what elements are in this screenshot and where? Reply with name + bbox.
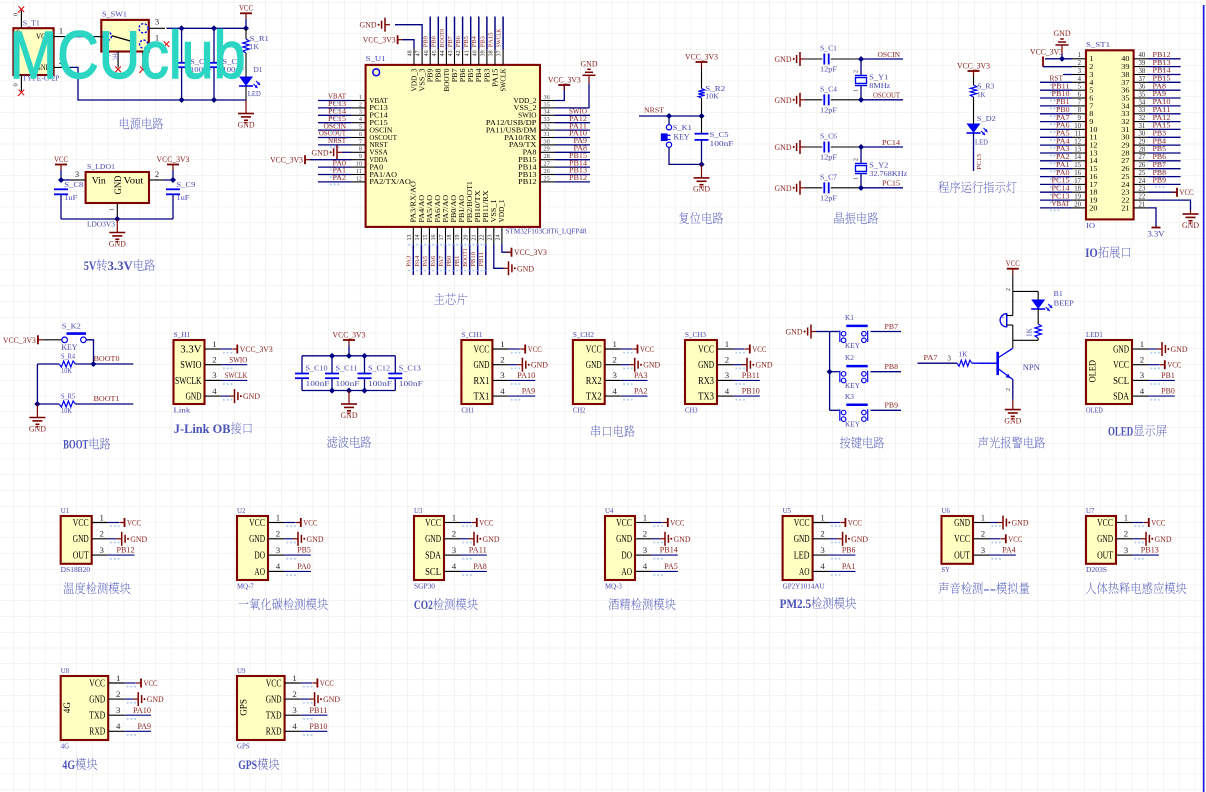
capacitor S_C4 xyxy=(824,94,828,105)
svg-text:4G: 4G xyxy=(61,742,69,750)
caption 5V转3.3V电路 xyxy=(84,258,155,273)
svg-text:S_R5: S_R5 xyxy=(61,394,75,401)
svg-text:3: 3 xyxy=(1124,545,1129,555)
power port VCC xyxy=(136,679,158,689)
svg-text:3: 3 xyxy=(1140,370,1145,380)
wire xyxy=(1040,113,1072,115)
wire xyxy=(1148,89,1181,91)
svg-text:34: 34 xyxy=(544,109,550,116)
svg-text:GND: GND xyxy=(186,392,202,403)
pin 15 PA5/AO xyxy=(423,195,434,244)
net label PA10 xyxy=(133,706,151,715)
designator S_R2 xyxy=(705,85,726,93)
pin 2 GND xyxy=(1097,529,1144,546)
part name TYPE-C-2P xyxy=(22,74,59,82)
wire xyxy=(494,17,496,50)
wire xyxy=(469,244,471,275)
wire xyxy=(733,379,760,381)
value 10K xyxy=(61,368,72,375)
caption CO2检测模块 xyxy=(414,597,478,612)
pushbutton S_K1 xyxy=(661,125,672,148)
junction xyxy=(346,353,352,359)
wire xyxy=(302,390,395,392)
svg-text:VDD_3: VDD_3 xyxy=(411,68,418,92)
svg-text:GND: GND xyxy=(323,695,340,704)
junction xyxy=(90,361,96,367)
part name GP2Y1014AU xyxy=(783,582,826,590)
net label PA11 xyxy=(469,546,487,555)
svg-text:S_CH1: S_CH1 xyxy=(461,331,482,339)
wire xyxy=(318,174,351,176)
svg-text:PC15: PC15 xyxy=(882,179,900,188)
caption 串口电路 xyxy=(591,425,634,437)
svg-text:KEY: KEY xyxy=(845,341,860,350)
svg-text:PB11: PB11 xyxy=(309,706,327,715)
pin 2 GND xyxy=(266,689,313,706)
wire xyxy=(733,364,742,366)
pin 23 VSS_1 xyxy=(487,200,498,245)
svg-text:LED1: LED1 xyxy=(1086,331,1103,339)
svg-text:1: 1 xyxy=(854,177,860,180)
designator CH3 xyxy=(685,331,706,339)
svg-text:BEEP: BEEP xyxy=(1054,299,1074,307)
svg-text:20: 20 xyxy=(463,235,469,241)
wire xyxy=(918,362,958,364)
connector U4 MQ-3 xyxy=(605,516,635,580)
wire xyxy=(172,194,174,219)
wire xyxy=(124,698,133,700)
pin 45 PB8 xyxy=(432,49,443,82)
designator S_LDO1 xyxy=(87,163,115,171)
ground xyxy=(581,59,598,83)
part name KEY xyxy=(845,420,860,429)
part name NPN xyxy=(1023,363,1040,372)
power port VCC xyxy=(663,518,685,528)
svg-text:2: 2 xyxy=(500,355,504,365)
net label PB13 xyxy=(1153,59,1171,70)
svg-text:41: 41 xyxy=(464,50,470,56)
junction xyxy=(170,177,176,183)
junction xyxy=(858,56,864,62)
capacitor S_C5 xyxy=(695,134,709,140)
wire xyxy=(829,570,856,572)
wire xyxy=(213,28,215,62)
ground xyxy=(630,358,661,372)
designator U4 xyxy=(605,507,614,515)
svg-text:PM2.5: PM2.5 xyxy=(780,596,812,611)
wire xyxy=(860,174,862,188)
wire xyxy=(245,86,247,100)
svg-text:32: 32 xyxy=(544,124,550,131)
svg-text:RX1: RX1 xyxy=(474,376,490,387)
svg-text:PB7: PB7 xyxy=(447,36,454,47)
svg-text:PB10: PB10 xyxy=(742,387,760,396)
net label PA5 xyxy=(1050,130,1070,141)
wire xyxy=(816,331,830,333)
resistor S_R5 xyxy=(59,401,76,407)
wire xyxy=(108,554,135,556)
svg-text:1: 1 xyxy=(981,512,985,522)
svg-text:1: 1 xyxy=(820,512,824,522)
wire xyxy=(508,379,535,381)
svg-text:1uF: 1uF xyxy=(176,194,189,202)
ground xyxy=(230,389,261,403)
designator D1 xyxy=(254,66,263,74)
net label PB11 xyxy=(478,252,485,267)
svg-text:VSSA: VSSA xyxy=(369,150,387,157)
wire xyxy=(1012,325,1014,340)
svg-text:VSS_1: VSS_1 xyxy=(491,200,498,223)
ground xyxy=(517,358,548,372)
svg-text:VCC_3V3: VCC_3V3 xyxy=(157,155,190,164)
net label PA9 xyxy=(138,722,152,731)
part name SY xyxy=(942,566,951,574)
svg-text:S_C6: S_C6 xyxy=(820,133,837,141)
svg-text:PB0: PB0 xyxy=(446,256,453,267)
pin 34 SWIO xyxy=(518,109,555,120)
pin 4 AO xyxy=(254,561,295,578)
wire xyxy=(76,363,134,365)
pin 2 xyxy=(1072,60,1094,71)
wire xyxy=(1148,152,1181,154)
svg-text:S_U1: S_U1 xyxy=(366,55,386,63)
svg-text:S_K1: S_K1 xyxy=(673,124,692,132)
svg-text:GND: GND xyxy=(474,360,490,371)
net label PA8 xyxy=(473,562,487,571)
svg-text:2: 2 xyxy=(116,689,120,699)
svg-text:PB3: PB3 xyxy=(484,68,491,83)
svg-text:SWIO: SWIO xyxy=(518,113,536,120)
svg-text:BOOT: BOOT xyxy=(63,437,88,452)
svg-text:VCC: VCC xyxy=(479,519,494,528)
net label VBAT xyxy=(1050,200,1070,211)
svg-text:PC15: PC15 xyxy=(369,120,388,127)
svg-text:VCC: VCC xyxy=(1008,535,1023,544)
designator S_C2 xyxy=(190,58,209,66)
wire xyxy=(454,17,456,50)
designator K2 xyxy=(845,354,854,362)
power port VCC_3V3 xyxy=(507,248,547,258)
resistor 1K xyxy=(957,360,972,366)
wire xyxy=(1040,128,1072,130)
value 1K xyxy=(250,43,260,51)
connector CH3 CH3 xyxy=(685,340,717,404)
pin 9 VDDA xyxy=(351,153,388,164)
svg-text:CH3: CH3 xyxy=(685,406,698,414)
value 100nF xyxy=(710,140,734,148)
no-ERC marker xyxy=(114,67,121,73)
svg-text:34: 34 xyxy=(1139,99,1146,106)
svg-text:3: 3 xyxy=(981,545,986,555)
pin 23 xyxy=(1121,186,1147,197)
wire xyxy=(555,85,564,101)
svg-text:VCC: VCC xyxy=(249,518,265,529)
svg-text:PA10: PA10 xyxy=(1153,98,1171,106)
part name OLED xyxy=(1086,406,1103,414)
svg-text:GND: GND xyxy=(954,518,970,529)
svg-text:S_CH2: S_CH2 xyxy=(573,331,594,339)
ground xyxy=(838,532,869,546)
junction xyxy=(858,185,864,191)
net label OSCIN xyxy=(878,50,901,59)
svg-text:VCC: VCC xyxy=(1006,259,1021,268)
svg-text:3: 3 xyxy=(75,169,79,179)
junction xyxy=(1059,56,1065,62)
svg-text:GND: GND xyxy=(249,534,265,545)
wire xyxy=(60,170,62,180)
svg-text:22: 22 xyxy=(1139,194,1146,201)
designator S_C3 xyxy=(222,58,241,66)
svg-text:PB6: PB6 xyxy=(460,68,467,83)
ground xyxy=(775,140,806,154)
part name Link xyxy=(174,406,191,414)
connector U9 GPS xyxy=(237,676,285,740)
svg-text:1: 1 xyxy=(212,339,216,349)
LED D1 xyxy=(239,77,260,89)
svg-text:PA4/AO: PA4/AO xyxy=(419,195,426,223)
ground xyxy=(775,93,806,107)
pin 29 PA8 xyxy=(523,146,555,157)
wire xyxy=(989,522,998,524)
svg-text:GND: GND xyxy=(89,695,105,706)
pin 2 VCC xyxy=(1113,355,1160,372)
svg-text:VCC: VCC xyxy=(127,519,142,528)
svg-text:PA7/AO: PA7/AO xyxy=(443,195,450,223)
wire xyxy=(639,115,702,117)
wire xyxy=(1040,191,1072,193)
wire xyxy=(221,364,248,366)
net label PA2 xyxy=(1050,153,1070,164)
svg-text:47: 47 xyxy=(416,50,422,56)
svg-text:PB13: PB13 xyxy=(1141,546,1159,555)
svg-text:VCC: VCC xyxy=(794,518,810,529)
power port VCC xyxy=(1172,188,1194,197)
designator U3 xyxy=(414,507,423,515)
power port VCC xyxy=(54,155,69,170)
svg-text:PB7: PB7 xyxy=(1153,161,1167,169)
svg-text:4G: 4G xyxy=(62,757,75,772)
svg-text:PA15: PA15 xyxy=(492,68,499,87)
net label PA4 xyxy=(1002,546,1016,555)
svg-text:7: 7 xyxy=(359,138,362,145)
connector U6 SY xyxy=(942,516,974,564)
net label PB7 xyxy=(885,322,899,331)
ground xyxy=(786,325,817,339)
svg-text:35: 35 xyxy=(544,101,550,108)
svg-text:GND: GND xyxy=(1113,344,1129,355)
svg-text:1: 1 xyxy=(359,94,362,101)
svg-text:4: 4 xyxy=(292,721,297,731)
svg-text:VCC: VCC xyxy=(54,155,69,164)
caption 温度检测模块 xyxy=(64,582,131,594)
svg-text:SWCLK: SWCLK xyxy=(501,68,508,91)
wire xyxy=(429,17,431,50)
svg-text:SGP30: SGP30 xyxy=(414,582,435,590)
svg-text:S_LDO1: S_LDO1 xyxy=(87,163,115,171)
net label PB12 xyxy=(569,173,587,182)
svg-text:PB11: PB11 xyxy=(478,252,485,267)
svg-text:NRST: NRST xyxy=(644,106,664,115)
wire xyxy=(555,122,590,124)
svg-text:OLED: OLED xyxy=(1108,424,1133,439)
svg-text:PA5: PA5 xyxy=(422,256,429,267)
svg-text:PA4: PA4 xyxy=(414,256,421,267)
designator U7 xyxy=(1086,507,1095,515)
wire xyxy=(861,187,903,189)
ground xyxy=(133,692,164,706)
svg-text:6: 6 xyxy=(1078,92,1082,99)
svg-text:PA3: PA3 xyxy=(406,256,413,267)
pin 5 OSCIN xyxy=(351,124,392,135)
pin 2 GND xyxy=(794,529,841,546)
pin 2 GND xyxy=(425,529,472,546)
wire xyxy=(331,356,333,374)
net label PA1 xyxy=(1050,161,1070,172)
svg-text:27: 27 xyxy=(544,161,550,168)
capacitor S_C2 xyxy=(175,63,189,67)
net label PB14 xyxy=(569,158,587,167)
net label PB6 xyxy=(842,546,856,555)
svg-text:PA9: PA9 xyxy=(1153,90,1167,98)
svg-text:PA7: PA7 xyxy=(1056,114,1070,122)
svg-text:10K: 10K xyxy=(705,93,719,101)
svg-text:45: 45 xyxy=(432,50,438,56)
power port VCC xyxy=(472,518,494,528)
svg-text:BOOT0: BOOT0 xyxy=(94,354,120,363)
svg-text:42: 42 xyxy=(456,50,462,56)
wire xyxy=(829,522,841,524)
net label OSCOUT xyxy=(319,130,347,141)
net label PA1 xyxy=(842,562,856,571)
pin 4 AO xyxy=(621,561,662,578)
pin 4 TX1 xyxy=(474,386,521,403)
value 10K xyxy=(705,93,719,101)
wire xyxy=(1148,160,1181,162)
wire xyxy=(805,146,822,148)
svg-text:1K: 1K xyxy=(250,43,260,51)
svg-text:GND: GND xyxy=(341,411,358,420)
wire xyxy=(831,187,861,189)
wire xyxy=(1148,168,1181,170)
pin 1 VCC xyxy=(73,512,120,529)
pin 28 PB15 xyxy=(518,153,555,164)
svg-text:PB8: PB8 xyxy=(436,68,443,83)
svg-text:1: 1 xyxy=(1078,52,1081,59)
pin 8 VSSA xyxy=(351,146,388,157)
svg-text:OLED: OLED xyxy=(1086,406,1103,414)
power port 3.3V xyxy=(1148,228,1165,239)
svg-text:PA2/TX/AO: PA2/TX/AO xyxy=(369,179,411,186)
net label PB9 xyxy=(885,401,899,410)
svg-text:VCC: VCC xyxy=(89,678,105,689)
svg-text:31: 31 xyxy=(544,131,550,138)
capacitor S_C10 xyxy=(295,374,309,379)
svg-text:GND: GND xyxy=(775,143,792,152)
svg-text:VCC_3V3: VCC_3V3 xyxy=(957,61,990,70)
wire xyxy=(1148,105,1181,107)
svg-text:PA10: PA10 xyxy=(133,706,151,715)
svg-text:AO: AO xyxy=(621,567,632,578)
wire xyxy=(181,68,183,100)
resistor S_R1 xyxy=(243,39,249,53)
pin 24 xyxy=(1121,178,1147,189)
pin 3 SCL xyxy=(1113,370,1160,387)
net label PB10 xyxy=(470,252,477,267)
wire xyxy=(669,147,702,164)
ground xyxy=(775,52,806,66)
svg-text:17: 17 xyxy=(1074,178,1081,185)
svg-text:GND: GND xyxy=(29,424,46,433)
svg-text:1K: 1K xyxy=(1026,327,1034,337)
wire xyxy=(1148,66,1181,68)
ground xyxy=(360,18,391,32)
svg-text:AO: AO xyxy=(254,567,265,578)
junction xyxy=(699,113,705,119)
net label PA9 xyxy=(522,387,536,396)
wire xyxy=(555,144,590,146)
pin 4 TX2 xyxy=(586,386,633,403)
pin 13 PA3/RX/AO xyxy=(407,181,418,244)
net label PA2 xyxy=(634,387,648,396)
wire xyxy=(508,395,535,397)
net label PA10 xyxy=(1153,98,1171,109)
net label PB12 xyxy=(117,546,135,555)
net label PA2 xyxy=(330,174,346,185)
wire xyxy=(555,166,590,168)
ground xyxy=(998,516,1029,530)
svg-text:31: 31 xyxy=(1139,123,1146,130)
svg-text:2: 2 xyxy=(1006,288,1012,291)
wire xyxy=(364,356,366,374)
svg-text:SWIO: SWIO xyxy=(229,355,247,364)
svg-text:GND: GND xyxy=(1097,534,1113,545)
svg-text:3: 3 xyxy=(276,545,281,555)
wire xyxy=(860,86,862,100)
pin 36 xyxy=(1121,84,1147,95)
junction xyxy=(34,401,40,407)
pin 14 PA4/AO xyxy=(415,195,426,244)
wire xyxy=(310,159,351,161)
pin 27 xyxy=(1121,154,1147,165)
svg-text:VBAT: VBAT xyxy=(369,98,388,105)
svg-text:Link: Link xyxy=(174,406,191,414)
value 10K xyxy=(61,408,72,415)
designator S_C10 xyxy=(306,364,328,372)
junction xyxy=(329,388,335,394)
pin 1 GND xyxy=(1113,339,1160,356)
power port VCC_3V3 xyxy=(232,345,272,355)
power port VCC xyxy=(296,518,318,528)
svg-text:GND: GND xyxy=(483,535,500,544)
net label PA15 xyxy=(487,32,494,47)
svg-text:39: 39 xyxy=(1139,60,1146,67)
svg-text:4: 4 xyxy=(612,386,617,396)
svg-text:16: 16 xyxy=(1074,170,1081,177)
svg-text:GND: GND xyxy=(1171,345,1188,354)
wire xyxy=(394,378,396,390)
wire xyxy=(555,114,590,116)
pushbutton S_K2 xyxy=(62,334,86,343)
net label PB9 xyxy=(1153,177,1167,188)
power port VCC_3V3 xyxy=(333,330,366,345)
ground xyxy=(660,532,691,546)
resistor S_R4 xyxy=(59,361,76,367)
svg-text:S_K2: S_K2 xyxy=(62,323,81,331)
svg-text:B1: B1 xyxy=(1054,290,1063,298)
svg-text:SY: SY xyxy=(942,566,951,574)
svg-text:KEY: KEY xyxy=(845,381,860,390)
net label PA9 xyxy=(1153,90,1167,101)
